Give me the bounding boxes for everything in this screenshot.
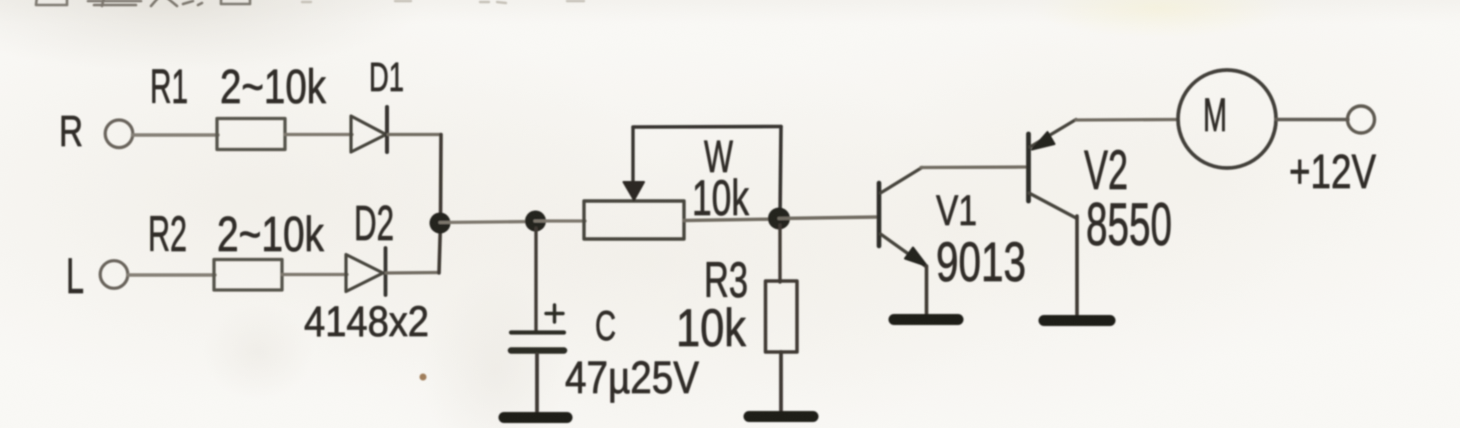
resistor R2 body bbox=[214, 260, 282, 291]
diode D1 triangle bbox=[351, 116, 386, 152]
terminal R (input circle) bbox=[105, 120, 133, 148]
wire V2 emitter to motor bbox=[1076, 118, 1178, 122]
wire R2 to D2 bbox=[282, 273, 347, 276]
ground (transistor V2) bbox=[1044, 315, 1110, 326]
diode D2 cathode bar bbox=[384, 248, 388, 295]
node junction J3 bbox=[768, 208, 790, 230]
capacitor C lead to ground bbox=[535, 354, 539, 413]
node junction J2 (capacitor tap) bbox=[525, 211, 546, 232]
cropped heading text remnant: diagonal strokes bbox=[151, 0, 202, 6]
terminal +12V circle bbox=[1348, 106, 1375, 133]
cropped heading text remnant: dense character bottom strokes bbox=[88, 0, 141, 6]
resistor R1 body bbox=[217, 119, 285, 150]
capacitor C plus sign bbox=[546, 305, 563, 322]
transistor V2 base bar bbox=[1026, 134, 1031, 201]
motor M circle bbox=[1178, 70, 1276, 168]
potentiometer W wiper arrow stem bbox=[631, 128, 634, 183]
wire V2 collector to ground bbox=[1075, 216, 1079, 316]
ground (resistor R3) bbox=[749, 411, 813, 422]
wire J3 to V1 base bbox=[779, 217, 878, 219]
cropped heading text remnant: box glyph fragment 2 bbox=[221, 0, 250, 4]
terminal L (input circle) bbox=[100, 261, 128, 289]
cropped heading text remnant: faint dashes right bbox=[302, 1, 584, 3]
wire R terminal to R1 bbox=[133, 133, 219, 136]
wire D2 to corner bbox=[386, 271, 439, 275]
resistor R3 body bbox=[766, 281, 798, 352]
wire wiper feedback top bbox=[633, 125, 781, 129]
ground (capacitor C) bbox=[504, 412, 567, 423]
wire V1 emitter to ground bbox=[925, 266, 929, 315]
wire potentiometer W to J3 bbox=[684, 219, 780, 221]
node junction J1 bbox=[430, 213, 451, 234]
wire motor to +12V terminal bbox=[1276, 118, 1348, 121]
wire D1 to corner bbox=[388, 133, 441, 136]
ground (transistor V1) bbox=[894, 314, 958, 325]
resistor R3 lead from J3 bbox=[778, 225, 781, 282]
wire V1 collector to V2 base bbox=[921, 165, 1028, 169]
diode D2 triangle bbox=[346, 255, 383, 292]
transistor V2 emitter arrowhead (PNP, points to base) bbox=[1032, 132, 1055, 150]
transistor V2 collector diagonal bbox=[1029, 193, 1077, 219]
transistor V1 emitter diagonal bbox=[881, 234, 927, 267]
wire J2 to potentiometer W bbox=[535, 219, 585, 222]
cropped heading text remnant: box glyph fragment bbox=[36, 0, 67, 5]
paper grain overlay bbox=[0, 0, 1, 1]
transistor V1 base bar bbox=[877, 183, 882, 246]
wire vertical joining D1 and D2 outputs bbox=[439, 135, 441, 274]
capacitor C lead from J2 bbox=[534, 228, 537, 331]
potentiometer W wiper arrowhead bbox=[624, 182, 645, 200]
potentiometer W body bbox=[584, 201, 684, 239]
wire J1 to J2 bbox=[440, 222, 536, 223]
transistor V1 emitter arrowhead bbox=[905, 248, 927, 267]
resistor R3 lead to ground bbox=[779, 352, 783, 412]
diode D1 cathode bar bbox=[385, 107, 389, 152]
capacitor C bottom plate bbox=[511, 347, 564, 354]
wire L terminal to R2 bbox=[128, 273, 215, 276]
wire feedback down to J3 bbox=[780, 127, 781, 219]
transistor V1 collector diagonal bbox=[881, 168, 923, 194]
capacitor C top plate bbox=[511, 330, 564, 334]
paper speck (brown dot) bbox=[420, 374, 427, 381]
transistor V2 emitter diagonal bbox=[1030, 120, 1076, 148]
wire R1 to D1 bbox=[285, 133, 352, 136]
